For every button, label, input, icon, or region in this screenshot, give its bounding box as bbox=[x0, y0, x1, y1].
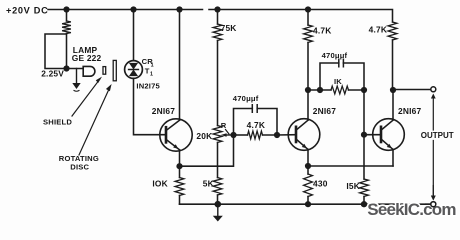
svg-text:DISC: DISC bbox=[70, 163, 89, 172]
capacitor 470uuf right bbox=[320, 63, 364, 90]
node rail-4.7K junction bbox=[305, 6, 311, 12]
svg-text:4.7K: 4.7K bbox=[313, 26, 332, 36]
wire Q3 emitter bbox=[392, 149, 394, 166]
node rail-75K junction bbox=[214, 6, 220, 12]
resistor 4.7K coupling bbox=[234, 134, 248, 136]
svg-text:R: R bbox=[221, 121, 227, 130]
wire to Q2 base bbox=[277, 134, 296, 136]
node 430 bottom junction bbox=[305, 201, 311, 207]
capacitor 470uuf left bbox=[234, 109, 278, 136]
svg-text:430: 430 bbox=[313, 179, 328, 189]
node Q3 collector junction bbox=[390, 87, 396, 93]
resistor 5K bbox=[213, 178, 222, 196]
svg-text:IN2I75: IN2I75 bbox=[136, 82, 160, 91]
svg-text:GE 222: GE 222 bbox=[72, 53, 102, 63]
resistor 15K bbox=[360, 179, 369, 197]
photodiode CR1/T1 1N2175 bbox=[125, 61, 143, 79]
node output lower terminal (over watermark) bbox=[431, 202, 436, 207]
svg-text:2NI67: 2NI67 bbox=[398, 106, 421, 116]
wire Q1 emitter bbox=[179, 150, 181, 166]
svg-text:OUTPUT: OUTPUT bbox=[421, 131, 454, 140]
ground lamp return bbox=[76, 69, 78, 84]
svg-text:1: 1 bbox=[151, 63, 154, 69]
svg-text:4.7K: 4.7K bbox=[369, 25, 388, 35]
node 1K right junction bbox=[361, 87, 367, 93]
node Q3 base junction bbox=[361, 132, 367, 138]
svg-text:+20V DC: +20V DC bbox=[6, 5, 48, 15]
wire ground rail bbox=[180, 203, 431, 205]
node output lower terminal bbox=[431, 202, 436, 207]
transistor Q3 2N167 bbox=[373, 119, 405, 151]
resistor 75K bbox=[217, 10, 219, 25]
transistor Q2 2N167 bbox=[288, 119, 320, 151]
svg-text:2NI67: 2NI67 bbox=[313, 106, 336, 116]
node Q1 emitter junction bbox=[176, 163, 182, 169]
leader shield arrow bbox=[72, 79, 100, 116]
resistor 1K bbox=[308, 89, 331, 91]
leader rotating disc arrow bbox=[79, 88, 110, 156]
wire lamp feed bbox=[67, 68, 84, 70]
shield bar bbox=[103, 67, 106, 75]
wire Q2 collector bbox=[307, 43, 309, 121]
wire to Q3 base bbox=[364, 134, 381, 136]
svg-text:1: 1 bbox=[150, 72, 153, 78]
node 5K-ground junction bbox=[215, 201, 222, 208]
resistor lamp dropping bbox=[62, 21, 71, 34]
node 15K bottom bbox=[361, 201, 367, 207]
wire Q1 collector bbox=[179, 10, 181, 121]
wire photodiode to Q1 base bbox=[134, 78, 167, 134]
wire Q3 collector bbox=[392, 90, 394, 120]
wire lamp resistor leads bbox=[66, 10, 68, 69]
node wiper junction bbox=[230, 132, 236, 138]
svg-text:IK: IK bbox=[334, 77, 342, 86]
wire Q1 emitter to pot wiper bbox=[180, 135, 234, 166]
svg-text:I5K: I5K bbox=[346, 181, 360, 191]
svg-text:5K: 5K bbox=[203, 179, 214, 189]
svg-text:2NI67: 2NI67 bbox=[152, 106, 175, 116]
transistor Q1 2N167 bbox=[160, 119, 192, 151]
node Q2 collector / 1K left bbox=[305, 87, 311, 93]
node rail-Q1-collector junction bbox=[176, 6, 182, 12]
node 15K bottom (over watermark) bbox=[361, 201, 367, 207]
node rail-photodiode junction bbox=[130, 6, 136, 12]
output indicator arrows bbox=[432, 98, 434, 196]
node 2.25V lamp junction bbox=[63, 65, 69, 71]
wire to output upper terminal bbox=[393, 89, 431, 91]
rotating disc bar bbox=[113, 60, 116, 80]
output indicator lower arrow (over watermark) bbox=[432, 185, 434, 196]
ground symbol main bbox=[217, 204, 219, 215]
wire rail stub at output lower bbox=[425, 203, 431, 205]
svg-text:SeekIC.com: SeekIC.com bbox=[367, 200, 456, 219]
wire Q3 base column bbox=[363, 90, 365, 179]
node output upper terminal bbox=[431, 87, 436, 92]
potentiometer 20K R bbox=[213, 126, 222, 143]
resistor 4.7K Q2 collector load bbox=[307, 10, 309, 26]
node Q2 emitter junction bbox=[305, 163, 311, 169]
wire Q2 emitter bbox=[307, 149, 309, 166]
node cap branch left bbox=[317, 87, 323, 93]
svg-text:75K: 75K bbox=[221, 23, 237, 33]
node rail-lamp junction bbox=[63, 6, 69, 12]
wire emitters link bbox=[308, 165, 393, 167]
svg-text:470μμf: 470μμf bbox=[322, 51, 348, 60]
svg-text:20K: 20K bbox=[196, 131, 212, 141]
wire photodiode top bbox=[133, 10, 135, 61]
svg-text:2.25V: 2.25V bbox=[41, 69, 64, 79]
resistor 10K bbox=[179, 166, 181, 177]
wire +20V supply rail bbox=[48, 10, 393, 23]
svg-text:470μμf: 470μμf bbox=[233, 94, 259, 103]
node Q2 base junction bbox=[274, 132, 280, 138]
lamp GE222 bulb bbox=[83, 66, 95, 76]
resistor 430 bbox=[307, 166, 309, 174]
svg-text:SHIELD: SHIELD bbox=[43, 117, 72, 126]
svg-text:IOK: IOK bbox=[152, 179, 168, 189]
svg-text:4.7K: 4.7K bbox=[247, 120, 266, 130]
resistor 4.7K output load bbox=[388, 22, 397, 40]
wire pot to 5K bbox=[217, 143, 219, 178]
wire lamp bypass loop bbox=[45, 34, 67, 69]
